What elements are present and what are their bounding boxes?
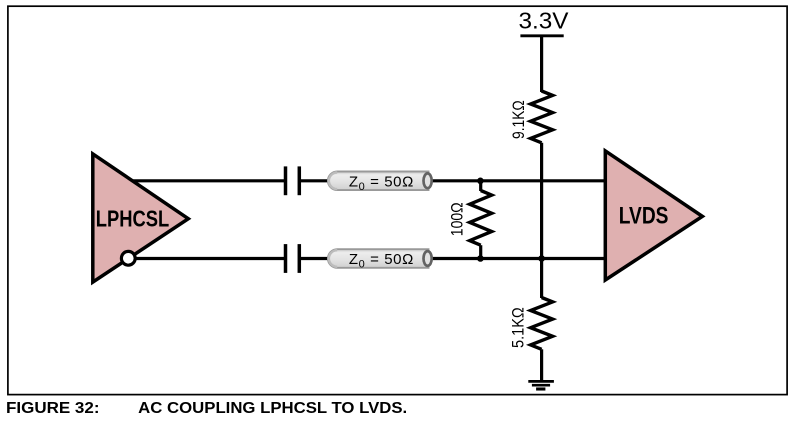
- svg-text:FIGURE 32:: FIGURE 32:: [6, 400, 100, 417]
- wire bottom line, transmission line to LVDS input: [430, 257, 607, 260]
- wire R 5.1K to ground: [540, 349, 543, 381]
- capacitor top AC coupling: [286, 166, 300, 195]
- svg-text:Z0 = 50Ω: Z0 = 50Ω: [349, 251, 414, 271]
- svg-text:Z0 = 50Ω: Z0 = 50Ω: [349, 173, 414, 193]
- wire top line, capacitor to transmission line: [301, 179, 330, 182]
- transmission line Z0 = 50Ω (bottom): [328, 249, 432, 270]
- wire R 9.1K to bias node (crosses top line, joins bottom line): [540, 143, 543, 298]
- receiver LVDS: [605, 151, 702, 280]
- junction bottom of 100Ω: [477, 255, 484, 262]
- junction top of 100Ω: [477, 178, 484, 185]
- svg-text:LPHCSL: LPHCSL: [96, 205, 170, 231]
- supply 3.3V: [519, 7, 570, 36]
- svg-text:100Ω: 100Ω: [448, 202, 467, 236]
- svg-text:LVDS: LVDS: [619, 202, 669, 229]
- resistor 100Ω between differential lines: [470, 181, 492, 259]
- capacitor bottom AC coupling: [286, 244, 300, 273]
- inversion bubble on LPHCSL inverting output: [121, 251, 135, 265]
- caption: [6, 400, 407, 417]
- resistor R 5.1K: [531, 298, 553, 350]
- svg-text:AC COUPLING LPHCSL TO LVDS.: AC COUPLING LPHCSL TO LVDS.: [138, 400, 407, 417]
- wire bottom line, capacitor to transmission line: [301, 257, 330, 260]
- junction bias node on bottom line: [538, 255, 545, 262]
- resistor R 9.1K: [531, 91, 553, 143]
- wire 3.3V rail to R 9.1K: [540, 36, 543, 92]
- driver LPHCSL: [93, 154, 189, 282]
- wire top differential line, driver to capacitor: [131, 179, 284, 182]
- svg-text:9.1KΩ: 9.1KΩ: [509, 100, 528, 139]
- wire top line, transmission line to LVDS input: [430, 179, 607, 182]
- ground: [528, 381, 554, 389]
- svg-text:3.3V: 3.3V: [519, 7, 570, 33]
- transmission line Z0 = 50Ω (top): [328, 172, 432, 193]
- svg-text:5.1KΩ: 5.1KΩ: [508, 307, 527, 348]
- wire bottom differential line, bubble to capacitor: [134, 257, 284, 260]
